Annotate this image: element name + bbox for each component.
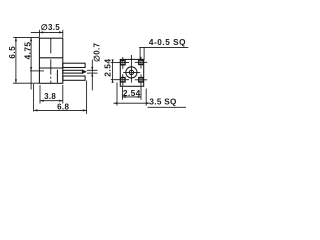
dim 0.7 line <box>91 60 93 91</box>
dim 6.5 bottom extension <box>13 82 40 84</box>
dim 2.54 left arrow bottom <box>112 80 114 83</box>
label 3.5 SQ underline <box>148 106 186 108</box>
dim 6.8 extension right <box>86 81 88 114</box>
svg-text:4.75: 4.75 <box>22 42 32 60</box>
label 4-0.5 SQ underline <box>139 46 188 48</box>
svg-text:6.5: 6.5 <box>8 46 17 59</box>
dim 3.5 arrow left <box>39 31 43 33</box>
svg-text:6.8: 6.8 <box>57 102 69 111</box>
pin bottom (side view) <box>63 76 85 80</box>
dim 3.5 extension left <box>38 30 40 38</box>
center bush inner circle <box>129 70 133 74</box>
pin middle shaft (side view) <box>63 70 83 73</box>
dim 2.54 bottom arrow left <box>122 96 125 98</box>
dim 3.8 arrow right <box>59 100 63 102</box>
dim 0.7 tick bottom <box>87 72 98 74</box>
dim 4.75 bottom extension <box>30 70 44 72</box>
body parting line lower <box>39 67 62 69</box>
body centerline <box>50 38 52 83</box>
dim 3.5 sq arrow left <box>114 102 117 104</box>
dim 3.8 arrow left <box>40 100 44 102</box>
label 4-0.5 SQ extension b <box>143 47 145 60</box>
dim 6.8 arrow right <box>83 109 87 111</box>
dim 2.54 left tick bottom <box>111 79 118 81</box>
centerline vertical (bottom view) <box>130 55 132 83</box>
dim 2.54 left tick top <box>111 62 118 64</box>
dim 0.7 arrow top <box>91 67 93 70</box>
dim 4.75 line <box>30 37 32 89</box>
dim 6.8 line <box>34 109 87 111</box>
pin middle tip <box>82 70 87 74</box>
dim 3.5 extension right <box>62 30 64 38</box>
dim 6.8 extension left <box>33 84 35 112</box>
dim 6.5 arrow top <box>15 37 17 41</box>
dim 6.5/4.75 top extension <box>13 36 39 38</box>
svg-text:3.8: 3.8 <box>44 92 56 101</box>
dim 4.75 arrow bottom <box>30 67 32 71</box>
pin top (side view) <box>63 63 85 67</box>
dim 3.8 line <box>40 100 63 102</box>
dim 6.5 arrow bottom <box>15 79 17 83</box>
dim 3.8 extension right <box>62 85 64 104</box>
dim 6.8 arrow left <box>34 109 38 111</box>
svg-text:2.54: 2.54 <box>102 58 112 76</box>
dim 2.54 bottom extension left <box>121 87 123 100</box>
dim 3.5 sq line <box>113 102 149 104</box>
dim 3.5 sq arrow right <box>146 102 149 104</box>
dim 2.54 left arrow top <box>112 59 114 62</box>
dim 3.5 sq extension right <box>145 89 147 106</box>
pin BR (bottom view) <box>135 74 147 86</box>
dim 2.54 bottom line <box>122 96 141 98</box>
dim 2.54 bottom arrow right <box>138 96 141 98</box>
body inner edge <box>56 70 58 83</box>
dim 3.8 extension left <box>39 85 41 104</box>
centerline horizontal (bottom view) <box>123 71 140 73</box>
svg-text:∅0.7: ∅0.7 <box>92 43 101 63</box>
dim 4.75 arrow top <box>30 37 32 41</box>
dim 0.7 tick top <box>87 69 98 71</box>
body outline (side view) <box>39 38 62 83</box>
dim 3.5 sq extension left <box>116 83 118 106</box>
body parting line upper <box>39 57 62 59</box>
dim 2.54 bottom extension right <box>140 87 142 100</box>
dim 3.5 line <box>31 31 63 33</box>
svg-text:∅3.5: ∅3.5 <box>41 23 61 32</box>
pin TL (bottom view) <box>117 57 129 69</box>
pin TR (bottom view) <box>135 57 147 69</box>
svg-text:4-0.5 SQ: 4-0.5 SQ <box>149 38 186 47</box>
svg-text:3.5 SQ: 3.5 SQ <box>149 98 177 107</box>
dim 6.5 line <box>15 37 17 83</box>
center bush outer circle <box>126 67 137 78</box>
pin BL (bottom view) <box>117 74 129 86</box>
dim 0.7 arrow bottom <box>91 73 93 76</box>
dim 2.54 left line <box>112 60 114 82</box>
svg-text:2.54: 2.54 <box>123 88 141 98</box>
body outline (bottom view) <box>120 59 143 86</box>
dim 3.5 arrow right <box>59 31 63 33</box>
label 4-0.5 SQ extension a <box>139 47 141 59</box>
